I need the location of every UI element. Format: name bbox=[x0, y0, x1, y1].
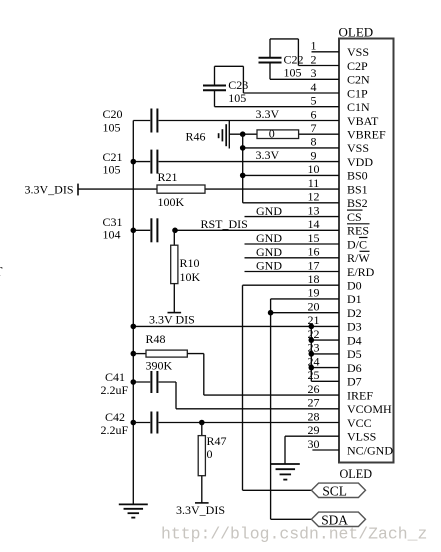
wire 3.3V_DIS to R21 bbox=[78, 188, 157, 190]
pin 13 wire bbox=[245, 216, 340, 218]
wire VLSS drop bbox=[284, 436, 286, 464]
svg-text:VBREF: VBREF bbox=[347, 128, 386, 142]
svg-text:D4: D4 bbox=[347, 333, 362, 347]
junction C31 / R10 bbox=[172, 228, 178, 234]
svg-text:D7: D7 bbox=[347, 375, 362, 389]
wire C31 left lead bbox=[133, 229, 150, 231]
svg-text:RES: RES bbox=[347, 224, 369, 238]
value C21 105 bbox=[103, 163, 121, 177]
svg-text:D6: D6 bbox=[347, 361, 362, 375]
pin 21 wire bbox=[133, 325, 339, 327]
pin 5 wire bbox=[215, 106, 340, 108]
pin 28 number bbox=[308, 409, 320, 423]
svg-text:9: 9 bbox=[311, 148, 317, 162]
label R48 bbox=[146, 332, 166, 346]
svg-text:SCL: SCL bbox=[322, 484, 347, 499]
svg-text:10K: 10K bbox=[180, 270, 201, 284]
pin 20 label D2 bbox=[347, 306, 362, 320]
pin 4 wire bbox=[243, 92, 339, 94]
capacitor C31 bbox=[151, 218, 157, 242]
svg-text:D/C: D/C bbox=[347, 237, 367, 251]
svg-text:R/W: R/W bbox=[347, 251, 370, 265]
svg-text:3.3V_DIS: 3.3V_DIS bbox=[25, 183, 74, 197]
wire R10 bottom lead bbox=[173, 284, 175, 313]
pin 10 wire bbox=[243, 174, 339, 176]
svg-text:VSS: VSS bbox=[347, 45, 369, 59]
wire C23 top hook bbox=[215, 66, 244, 93]
svg-text:105: 105 bbox=[228, 91, 246, 105]
pin 10 label BS0 bbox=[347, 169, 368, 183]
svg-text:5: 5 bbox=[311, 94, 317, 108]
svg-text:C2N: C2N bbox=[347, 73, 370, 87]
power tick 3.3V_DIS (R47) bbox=[195, 502, 209, 504]
junction bus A / R48 bbox=[131, 351, 137, 357]
pin 8 number bbox=[311, 135, 317, 149]
wire C22 bottom lead bbox=[269, 63, 271, 80]
svg-text:D0: D0 bbox=[347, 279, 362, 293]
pin 5 label C1N bbox=[347, 100, 370, 114]
net label 3.3V_DIS (left) bbox=[25, 183, 74, 197]
wire ground bus (left vertical) bbox=[132, 121, 134, 505]
pin 16 wire bbox=[245, 257, 340, 259]
svg-text:C22: C22 bbox=[284, 53, 304, 67]
pin 15 label D/C bbox=[347, 237, 368, 251]
value C42 2.2uF bbox=[101, 423, 129, 437]
svg-text:GND: GND bbox=[256, 204, 282, 218]
pin 14 wire bbox=[175, 229, 339, 231]
label C23 bbox=[228, 78, 248, 92]
label R10 bbox=[180, 256, 200, 270]
port SDA bbox=[311, 512, 365, 528]
svg-text:26: 26 bbox=[308, 382, 320, 396]
pin 6 label VBAT bbox=[347, 114, 379, 128]
pin 24 number bbox=[308, 354, 320, 368]
svg-text:R10: R10 bbox=[180, 256, 200, 270]
pin 17 number bbox=[308, 258, 320, 272]
label C31 bbox=[103, 215, 123, 229]
pin 12 label BS2 bbox=[347, 196, 368, 210]
pin 3 label C2N bbox=[347, 73, 370, 87]
net label RST_DIS bbox=[201, 217, 248, 231]
svg-text:7: 7 bbox=[311, 121, 317, 135]
svg-text:OLED: OLED bbox=[340, 467, 373, 481]
svg-text:20: 20 bbox=[308, 300, 320, 314]
pin 25 wire bbox=[311, 380, 339, 382]
wire C21 left lead bbox=[133, 161, 150, 163]
pin 20 wire bbox=[271, 312, 339, 314]
port SCL bbox=[311, 483, 365, 499]
wire R47 bottom lead bbox=[201, 476, 203, 503]
pin 5 number bbox=[311, 94, 317, 108]
svg-text:IREF: IREF bbox=[347, 388, 373, 402]
value C20 105 bbox=[103, 120, 121, 134]
svg-text:100K: 100K bbox=[158, 195, 185, 209]
svg-text:C1N: C1N bbox=[347, 100, 370, 114]
pin 13 number bbox=[308, 203, 320, 217]
svg-text:17: 17 bbox=[308, 258, 320, 272]
svg-text:19: 19 bbox=[308, 286, 320, 300]
pin 16 label R/W bbox=[347, 251, 370, 265]
pin 22 label D4 bbox=[347, 333, 362, 347]
pin 30 wire bbox=[312, 449, 339, 451]
wire R47 top lead bbox=[201, 423, 203, 436]
pin 24 wire bbox=[311, 367, 339, 369]
power tick 3.3V_DIS (left) bbox=[77, 184, 79, 196]
wire bus B vertical bbox=[242, 134, 244, 203]
svg-text:14: 14 bbox=[308, 217, 320, 231]
svg-text:VSS: VSS bbox=[347, 141, 369, 155]
pin 1 wire bbox=[312, 51, 340, 53]
pin 20 number bbox=[308, 300, 320, 314]
pin 30 label NC/GND bbox=[347, 443, 393, 457]
resistor R48 bbox=[146, 350, 187, 357]
svg-text:105: 105 bbox=[103, 163, 121, 177]
label R21 bbox=[158, 170, 178, 184]
pin 17 wire bbox=[245, 271, 340, 273]
svg-text:R21: R21 bbox=[158, 170, 178, 184]
junction pin7/bus B bbox=[240, 131, 246, 137]
pin 10 number bbox=[308, 162, 320, 176]
wire C41 to VCOMH bbox=[159, 382, 176, 409]
pin 28 wire bbox=[159, 422, 339, 424]
pin 29 label VLSS bbox=[347, 430, 376, 444]
power tick 3.3V DIS (R10) bbox=[168, 312, 182, 314]
pin 8 label VSS bbox=[347, 141, 369, 155]
svg-text:BS1: BS1 bbox=[347, 182, 368, 196]
junction bus A / C42 bbox=[131, 420, 137, 426]
net label 3.3V DIS (R10) bbox=[149, 313, 195, 327]
wire D1 vertical to SDA bbox=[271, 299, 312, 519]
pin 21 number bbox=[308, 313, 320, 327]
pin 18 label D0 bbox=[347, 279, 362, 293]
svg-text:BS0: BS0 bbox=[347, 169, 368, 183]
label 3.3V (VBAT) bbox=[256, 107, 280, 121]
resistor R46 bbox=[257, 130, 299, 139]
value C31 104 bbox=[103, 228, 121, 242]
pin 15 wire bbox=[245, 243, 340, 245]
svg-text:D1: D1 bbox=[347, 292, 362, 306]
svg-text:0: 0 bbox=[269, 126, 275, 140]
value R46 0 bbox=[269, 126, 275, 140]
capacitor C20 bbox=[151, 109, 157, 133]
value R10 10K bbox=[180, 270, 201, 284]
pin 21 label D3 bbox=[347, 320, 362, 334]
svg-text:8: 8 bbox=[311, 135, 317, 149]
svg-text:C1P: C1P bbox=[347, 86, 368, 100]
svg-text:104: 104 bbox=[103, 228, 121, 242]
pin 17 label E/RD bbox=[347, 265, 375, 279]
junction bus A / C21 bbox=[131, 159, 137, 165]
svg-text:C20: C20 bbox=[103, 107, 123, 121]
label R46 bbox=[186, 129, 206, 143]
ground (VLSS) bbox=[271, 464, 300, 480]
svg-text:2.2uF: 2.2uF bbox=[101, 423, 129, 437]
svg-text:11: 11 bbox=[308, 176, 320, 190]
svg-text:VBAT: VBAT bbox=[347, 114, 379, 128]
pin 23 number bbox=[308, 341, 320, 355]
svg-text:15: 15 bbox=[308, 231, 320, 245]
pin 1 number bbox=[311, 39, 317, 53]
pin 29 number bbox=[308, 423, 320, 437]
label 3.3V (VDD) bbox=[256, 148, 280, 162]
svg-text:NC/GND: NC/GND bbox=[347, 443, 393, 457]
connector OLED box outline bbox=[339, 39, 394, 463]
value R48 390K bbox=[146, 358, 173, 372]
svg-text:OLED: OLED bbox=[339, 25, 374, 40]
junction C42 / R47 bbox=[199, 420, 205, 426]
value C41 2.2uF bbox=[101, 383, 129, 397]
svg-text:3.3V: 3.3V bbox=[256, 107, 280, 121]
pin 27 wire bbox=[176, 408, 339, 410]
pin 30 number bbox=[308, 437, 320, 451]
svg-text:3.3V: 3.3V bbox=[256, 148, 280, 162]
label C22 bbox=[284, 53, 304, 67]
pin 23 wire bbox=[311, 353, 339, 355]
svg-text:30: 30 bbox=[308, 437, 320, 451]
pin 9 label VDD bbox=[347, 155, 373, 169]
value R47 0 bbox=[207, 447, 213, 461]
wire C22 top hook bbox=[270, 39, 298, 66]
label C42 bbox=[105, 410, 125, 424]
svg-text:VCOMH: VCOMH bbox=[347, 402, 392, 416]
wire bus C vertical bbox=[310, 326, 312, 381]
svg-text:3.3V DIS: 3.3V DIS bbox=[149, 313, 195, 327]
svg-text:VLSS: VLSS bbox=[347, 430, 376, 444]
svg-text:GND: GND bbox=[256, 231, 282, 245]
net label GND (pin 16) bbox=[256, 245, 282, 259]
value C23 105 bbox=[228, 91, 246, 105]
pin 2 label C2P bbox=[347, 59, 368, 73]
pin 12 number bbox=[308, 190, 320, 204]
capacitor C41 bbox=[151, 371, 157, 393]
capacitor C21 bbox=[151, 150, 157, 174]
junction bus C pin 24 bbox=[309, 365, 315, 371]
pin 6 number bbox=[311, 107, 317, 121]
svg-text:C2P: C2P bbox=[347, 59, 368, 73]
pin 1 label VSS bbox=[347, 45, 369, 59]
pin 27 number bbox=[308, 396, 320, 410]
label C21 bbox=[103, 150, 123, 164]
svg-text:12: 12 bbox=[308, 190, 320, 204]
junction bus C pin 22 bbox=[309, 337, 315, 343]
resistor R21 bbox=[157, 185, 205, 193]
junction bus C pin 21 bbox=[309, 324, 315, 330]
svg-text:105: 105 bbox=[103, 120, 121, 134]
pin 2 wire bbox=[298, 65, 339, 67]
pin 8 wire bbox=[243, 147, 339, 149]
label C41 bbox=[105, 370, 125, 384]
net label GND (pin 17) bbox=[256, 259, 282, 273]
svg-text:GND: GND bbox=[256, 245, 282, 259]
OLED designator (bottom) bbox=[340, 467, 373, 481]
resistor R10 bbox=[171, 245, 178, 283]
junction D1 bus / pin 20 bbox=[268, 310, 274, 316]
value C22 105 bbox=[284, 66, 302, 80]
wire C42 left lead bbox=[133, 422, 150, 424]
pin 4 number bbox=[311, 80, 317, 94]
svg-text:13: 13 bbox=[308, 203, 320, 217]
svg-text:1: 1 bbox=[311, 39, 317, 53]
svg-text:2: 2 bbox=[311, 52, 317, 66]
wire C23 bottom lead bbox=[214, 90, 216, 106]
wire C20 left lead bbox=[133, 120, 150, 122]
pin 3 wire bbox=[270, 78, 339, 80]
net label GND (pin 15) bbox=[256, 231, 282, 245]
pin 7 wire bbox=[229, 133, 339, 135]
pin 13 label CS bbox=[347, 210, 363, 224]
pin 24 label D6 bbox=[347, 361, 362, 375]
pin 15 number bbox=[308, 231, 320, 245]
svg-text:VCC: VCC bbox=[347, 416, 372, 430]
svg-text:390K: 390K bbox=[146, 358, 173, 372]
pin 3 number bbox=[311, 66, 317, 80]
svg-text:VDD: VDD bbox=[347, 155, 373, 169]
svg-text:27: 27 bbox=[308, 396, 320, 410]
pin 23 label D5 bbox=[347, 347, 362, 361]
junction bus B pin 8 bbox=[240, 145, 246, 151]
pin 7 number bbox=[311, 121, 317, 135]
pin 26 label IREF bbox=[347, 388, 373, 402]
pin 29 wire bbox=[285, 435, 339, 437]
pin 19 number bbox=[308, 286, 320, 300]
OLED designator (top) bbox=[339, 25, 374, 40]
ground (rotated, near R46) bbox=[219, 124, 227, 146]
wire C41 left lead bbox=[133, 381, 150, 383]
svg-text:R48: R48 bbox=[146, 332, 166, 346]
svg-text:6: 6 bbox=[311, 107, 317, 121]
wire R48 left lead bbox=[133, 353, 146, 355]
svg-text:D5: D5 bbox=[347, 347, 362, 361]
svg-text:4: 4 bbox=[311, 80, 317, 94]
pin 25 number bbox=[308, 368, 320, 382]
svg-text:R47: R47 bbox=[207, 434, 227, 448]
pin 26 wire bbox=[204, 394, 339, 396]
pin 6 wire bbox=[159, 120, 339, 122]
ground (bus bottom) bbox=[119, 504, 148, 517]
pin 2 number bbox=[311, 52, 317, 66]
svg-text:25: 25 bbox=[308, 368, 320, 382]
pin 28 label VCC bbox=[347, 416, 372, 430]
pin 14 number bbox=[308, 217, 320, 231]
svg-text:CS: CS bbox=[347, 210, 362, 224]
pin 18 number bbox=[308, 272, 320, 286]
pin 4 label C1P bbox=[347, 86, 368, 100]
capacitor C23 bbox=[203, 86, 226, 91]
junction bus C pin 23 bbox=[309, 351, 315, 357]
svg-text:GND: GND bbox=[256, 259, 282, 273]
label C20 bbox=[103, 107, 123, 121]
svg-text:D3: D3 bbox=[347, 320, 362, 334]
watermark bbox=[161, 525, 427, 544]
label R47 bbox=[207, 434, 227, 448]
pin 11 label BS1 bbox=[347, 182, 368, 196]
svg-text:29: 29 bbox=[308, 423, 320, 437]
pin 12 wire bbox=[243, 202, 339, 204]
wire VBAT drop bbox=[228, 121, 230, 149]
wire R10 top lead bbox=[173, 230, 175, 245]
pin 16 number bbox=[308, 245, 320, 259]
partial label T (left edge) bbox=[0, 264, 3, 279]
svg-text:3: 3 bbox=[311, 66, 317, 80]
net label 3.3V_DIS (R47) bbox=[176, 503, 225, 517]
wire D0 vertical to SCL bbox=[243, 285, 312, 490]
pin 27 label VCOMH bbox=[347, 402, 392, 416]
svg-text:R46: R46 bbox=[186, 129, 206, 143]
svg-text:T: T bbox=[0, 264, 3, 279]
pin 11 number bbox=[308, 176, 320, 190]
svg-text:0: 0 bbox=[207, 447, 213, 461]
pin 19 label D1 bbox=[347, 292, 362, 306]
capacitor C22 bbox=[259, 58, 282, 63]
svg-text:10: 10 bbox=[308, 162, 320, 176]
pin 22 wire bbox=[311, 339, 339, 341]
pin 14 label RES bbox=[347, 224, 370, 238]
pin 11 wire bbox=[205, 188, 339, 190]
svg-text:D2: D2 bbox=[347, 306, 362, 320]
resistor R47 bbox=[198, 436, 205, 476]
pin 25 label D7 bbox=[347, 375, 362, 389]
pin 19 wire bbox=[271, 298, 339, 300]
pin 9 number bbox=[311, 148, 317, 162]
junction bus A / C41 bbox=[131, 379, 137, 385]
pin 26 number bbox=[308, 382, 320, 396]
svg-text:RST_DIS: RST_DIS bbox=[201, 217, 248, 231]
svg-text:BS2: BS2 bbox=[347, 196, 368, 210]
junction bus B pin 10 bbox=[240, 173, 246, 179]
wire R48 to IREF bbox=[187, 354, 204, 396]
capacitor C42 bbox=[151, 412, 157, 434]
net label GND (pin 13) bbox=[256, 204, 282, 218]
svg-text:2.2uF: 2.2uF bbox=[101, 383, 129, 397]
svg-text:http://blog.csdn.net/Zach_z: http://blog.csdn.net/Zach_z bbox=[161, 525, 427, 544]
svg-text:18: 18 bbox=[308, 272, 320, 286]
svg-text:3.3V_DIS: 3.3V_DIS bbox=[176, 503, 225, 517]
pin 18 wire bbox=[243, 284, 340, 286]
pin 7 label VBREF bbox=[347, 128, 386, 142]
svg-text:16: 16 bbox=[308, 245, 320, 259]
junction bus A / D3 line bbox=[131, 324, 137, 330]
value R21 100K bbox=[158, 195, 185, 209]
svg-text:E/RD: E/RD bbox=[347, 265, 375, 279]
junction bus A / C31 bbox=[131, 228, 137, 234]
svg-text:28: 28 bbox=[308, 409, 320, 423]
pin 22 number bbox=[308, 327, 320, 341]
pin 9 wire bbox=[159, 161, 339, 163]
svg-text:105: 105 bbox=[284, 66, 302, 80]
